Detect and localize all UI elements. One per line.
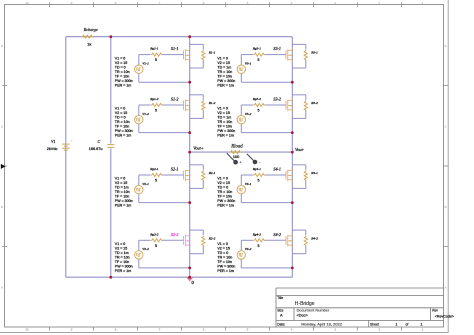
svg-text:2kVdc: 2kVdc [47, 147, 58, 151]
transistor S3-2 [285, 101, 287, 110]
node junction S3-1 source [291, 81, 294, 84]
svg-text:PER = 1m: PER = 1m [217, 204, 233, 208]
wire drain resistor loop R4-2 [292, 229, 306, 231]
transistor S2-1 [183, 171, 185, 180]
node junction S2-2 source [188, 267, 191, 270]
params V2-1 [115, 177, 133, 208]
svg-text:R2-1: R2-1 [208, 171, 216, 175]
svg-text:TD = 0: TD = 0 [115, 65, 126, 69]
svg-text:PER = 1m: PER = 1m [217, 134, 233, 138]
svg-text:Rg3-2: Rg3-2 [252, 97, 262, 101]
ground 0 [186, 278, 193, 282]
svg-text:PW = 300n: PW = 300n [217, 265, 235, 269]
wire drain resistor loop R2-2 [190, 229, 204, 231]
wire gate loop S1-1 [138, 55, 140, 65]
svg-text:S2-2: S2-2 [171, 232, 179, 237]
svg-text:<Doc>: <Doc> [297, 314, 309, 318]
pulse source V2-1 [135, 185, 143, 193]
node junction S4-1 source [291, 201, 294, 204]
svg-text:Rcharge: Rcharge [83, 27, 98, 32]
svg-text:PW = 300n: PW = 300n [115, 79, 133, 83]
svg-text:PW = 300n: PW = 300n [217, 199, 235, 203]
svg-text:C: C [1, 125, 3, 129]
svg-text:<RevCode>: <RevCode> [435, 314, 454, 318]
wire gate loop S2-2 [138, 240, 140, 250]
svg-text:PER = 1m: PER = 1m [217, 269, 233, 273]
wire drain resistor loop R3-1 [292, 43, 306, 45]
svg-text:TD = 1m: TD = 1m [217, 116, 231, 120]
wire V1 rail left [65, 37, 67, 278]
svg-text:PW = 300n: PW = 300n [217, 79, 235, 83]
svg-text:100: 100 [233, 155, 239, 159]
svg-text:5: 5 [258, 58, 260, 62]
svg-text:V2 = 15: V2 = 15 [217, 61, 230, 65]
resistor R2-1 [202, 170, 205, 181]
node junction top left leg [188, 35, 191, 38]
svg-text:PER = 1m: PER = 1m [115, 134, 131, 138]
svg-text:TD = 1m: TD = 1m [217, 65, 231, 69]
svg-text:D: D [1, 44, 3, 48]
pulse source V3-1 [237, 65, 245, 73]
svg-text:V1 = 0: V1 = 0 [217, 56, 228, 60]
svg-text:PER = 1m: PER = 1m [115, 204, 131, 208]
svg-text:TR = 10n: TR = 10n [115, 190, 130, 194]
resistor R4-1 [304, 170, 307, 181]
resistor R1-1 [202, 50, 205, 61]
svg-text:R4-1: R4-1 [310, 171, 318, 175]
svg-text:S3-1: S3-1 [273, 46, 281, 51]
svg-text:TF = 10n: TF = 10n [217, 74, 231, 78]
svg-text:TD = 0: TD = 0 [115, 116, 126, 120]
svg-text:TR = 10n: TR = 10n [217, 256, 232, 260]
wire gate loop S2-1 [138, 175, 140, 185]
svg-text:1k: 1k [87, 42, 91, 46]
wire bottom rail [66, 276, 292, 278]
svg-text:H-Bridge: H-Bridge [295, 301, 315, 307]
svg-text:V1 = 0: V1 = 0 [217, 177, 228, 181]
svg-text:Rg2-1: Rg2-1 [149, 167, 159, 171]
svg-text:V3-2: V3-2 [245, 112, 252, 116]
pulse source V2-2 [135, 251, 143, 259]
wire top rail [66, 36, 292, 38]
wire gate loop S4-1 [240, 175, 242, 185]
svg-text:B: B [445, 205, 447, 209]
svg-text:TF = 10n: TF = 10n [217, 195, 231, 199]
node junction S3-2 source [291, 131, 294, 134]
svg-text:Rg4-1: Rg4-1 [252, 167, 262, 171]
svg-text:V2 = 15: V2 = 15 [115, 61, 128, 65]
svg-text:-: - [259, 160, 260, 164]
svg-text:V1 = 0: V1 = 0 [115, 242, 126, 246]
resistor R2-2 [202, 236, 205, 247]
svg-text:TR = 10n: TR = 10n [115, 120, 130, 124]
svg-text:5: 5 [155, 58, 157, 62]
wire drain resistor loop R2-1 [190, 164, 204, 166]
svg-text:PW = 300n: PW = 300n [115, 199, 133, 203]
svg-text:TF = 10n: TF = 10n [115, 74, 129, 78]
svg-text:B: B [1, 205, 3, 209]
svg-text:of: of [406, 322, 409, 326]
title block frame [276, 288, 444, 327]
probe marker minus [247, 154, 254, 161]
node Vout- [291, 151, 294, 154]
resistor R3-1 [304, 50, 307, 61]
wire left leg rail [189, 37, 191, 278]
node junction S2-1 source [188, 201, 191, 204]
svg-text:R2-2: R2-2 [208, 236, 216, 240]
svg-text:S2-1: S2-1 [171, 167, 179, 172]
svg-text:1: 1 [421, 322, 423, 326]
pulse source V1-2 [135, 115, 143, 123]
svg-text:5: 5 [258, 109, 260, 113]
svg-text:A: A [280, 314, 283, 318]
svg-text:TR = 10n: TR = 10n [115, 256, 130, 260]
title block text [277, 296, 454, 327]
svg-text:R3-1: R3-1 [310, 51, 318, 55]
svg-text:C: C [445, 125, 447, 129]
resistor Rg4-1 [253, 173, 265, 176]
capacitor C [107, 145, 114, 148]
svg-text:10: 10 [25, 1, 29, 5]
svg-text:V3-1: V3-1 [245, 62, 252, 66]
svg-text:V2 = 15: V2 = 15 [115, 181, 128, 185]
transistor S4-2 [285, 236, 287, 245]
svg-text:1: 1 [396, 322, 398, 326]
svg-text:Rev: Rev [432, 309, 438, 313]
svg-text:TR = 10n: TR = 10n [217, 190, 232, 194]
wire drain resistor loop R1-2 [190, 94, 204, 96]
transistor S2-2 [183, 236, 185, 245]
svg-text:V1: V1 [51, 139, 55, 144]
svg-text:V2 = 15: V2 = 15 [217, 181, 230, 185]
svg-text:+: + [240, 160, 242, 164]
params V3-1 [217, 56, 235, 87]
wire drain resistor loop R1-1 [190, 43, 204, 45]
svg-text:TR = 10n: TR = 10n [115, 70, 130, 74]
svg-text:TF = 10n: TF = 10n [115, 125, 129, 129]
wire drain resistor loop R3-2 [292, 94, 306, 96]
resistor R1-2 [202, 100, 205, 111]
svg-text:Monday, April 18, 2022: Monday, April 18, 2022 [301, 322, 342, 327]
transistor S1-1 [183, 50, 185, 59]
svg-text:Rg3-1: Rg3-1 [252, 47, 262, 51]
svg-text:Sheet: Sheet [370, 322, 379, 326]
svg-text:S4-2: S4-2 [273, 232, 281, 237]
svg-text:Size: Size [277, 309, 283, 313]
svg-text:Rg2-2: Rg2-2 [149, 232, 159, 236]
svg-text:V2-1: V2-1 [142, 182, 149, 186]
svg-text:V1-2: V1-2 [142, 112, 149, 116]
svg-text:TF = 10n: TF = 10n [217, 125, 231, 129]
probe marker plus [227, 153, 235, 161]
wire gate loop S4-2 [240, 240, 242, 250]
svg-text:R1-1: R1-1 [208, 51, 216, 55]
svg-text:PW = 300n: PW = 300n [217, 129, 235, 133]
svg-text:PER = 1m: PER = 1m [217, 83, 233, 87]
wire gate loop S3-1 [240, 55, 242, 65]
svg-text:5: 5 [155, 179, 157, 183]
svg-text:5: 5 [155, 244, 157, 248]
svg-text:PER = 1m: PER = 1m [115, 269, 131, 273]
svg-text:Document Number: Document Number [297, 308, 330, 313]
pulse source V4-1 [237, 185, 245, 193]
svg-text:V1 = 0: V1 = 0 [115, 56, 126, 60]
transistor S4-1 [285, 171, 287, 180]
resistor Rg1-2 [151, 103, 163, 106]
svg-text:S4-1: S4-1 [273, 167, 281, 172]
resistor R4-2 [304, 236, 307, 247]
resistor Rg3-2 [253, 103, 265, 106]
svg-text:V1-1: V1-1 [142, 62, 149, 66]
svg-text:S1-1: S1-1 [171, 46, 179, 51]
svg-text:V4-2: V4-2 [245, 247, 252, 251]
svg-text:V2 = 15: V2 = 15 [115, 111, 128, 115]
svg-text:C: C [98, 139, 101, 144]
svg-text:Title: Title [277, 296, 283, 300]
params V2-2 [115, 242, 133, 273]
wire Vout load line [190, 151, 293, 153]
svg-text:R3-2: R3-2 [310, 101, 318, 105]
resistor R3-2 [304, 100, 307, 111]
resistor Rg2-2 [151, 239, 163, 242]
svg-text:5: 5 [155, 109, 157, 113]
svg-text:TD = 1m: TD = 1m [115, 186, 129, 190]
resistor Rcharge [81, 35, 93, 38]
svg-text:Rload: Rload [230, 144, 243, 149]
wire gate loop S3-2 [240, 105, 242, 115]
svg-text:Date:: Date: [277, 322, 285, 326]
node junction top cap [109, 35, 112, 38]
svg-text:TF = 10n: TF = 10n [217, 260, 231, 264]
resistor Rload [230, 151, 242, 154]
svg-text:Rg1-1: Rg1-1 [149, 47, 159, 51]
wire right leg rail [291, 37, 293, 278]
svg-text:V2 = 15: V2 = 15 [217, 111, 230, 115]
wire drain resistor loop R4-1 [292, 164, 306, 166]
transistor S3-1 [285, 50, 287, 59]
svg-text:10: 10 [25, 327, 29, 331]
resistor Rg3-1 [253, 53, 265, 56]
svg-text:V1 = 0: V1 = 0 [115, 107, 126, 111]
svg-text:V1 = 0: V1 = 0 [217, 242, 228, 246]
svg-text:Rg4-2: Rg4-2 [252, 232, 262, 236]
pulse source V4-2 [237, 251, 245, 259]
svg-text:V2-2: V2-2 [142, 247, 149, 251]
resistor Rg1-1 [151, 53, 163, 56]
svg-text:5: 5 [258, 179, 260, 183]
svg-text:V4-1: V4-1 [245, 182, 252, 186]
svg-text:PW = 300n: PW = 300n [115, 129, 133, 133]
params V4-1 [217, 177, 235, 208]
pulse source V1-1 [135, 65, 143, 73]
node junction S1-2 source [188, 131, 191, 134]
node junction S1-1 source [188, 81, 191, 84]
svg-text:R4-2: R4-2 [310, 236, 318, 240]
svg-text:TR = 10n: TR = 10n [217, 120, 232, 124]
svg-text:166.67u: 166.67u [89, 147, 103, 151]
voltage source V1 [62, 144, 70, 150]
transistor S1-2 [183, 101, 185, 110]
params V3-2 [217, 107, 235, 138]
params V1-2 [115, 107, 133, 138]
svg-text:Vout-: Vout- [295, 147, 305, 152]
resistor Rg4-2 [253, 239, 265, 242]
svg-text:R1-2: R1-2 [208, 101, 216, 105]
params V4-2 [217, 242, 235, 273]
svg-text:Vout+: Vout+ [193, 146, 204, 151]
wire gate loop S1-2 [138, 105, 140, 115]
svg-text:V1 = 0: V1 = 0 [217, 107, 228, 111]
svg-text:D: D [445, 44, 447, 48]
svg-text:S3-2: S3-2 [273, 97, 281, 102]
zone letters [1, 44, 447, 290]
svg-text:S1-2: S1-2 [171, 97, 179, 102]
svg-text:PER = 1m: PER = 1m [115, 83, 131, 87]
svg-text:V2 = 15: V2 = 15 [217, 247, 230, 251]
svg-text:5: 5 [258, 244, 260, 248]
svg-text:V1 = 0: V1 = 0 [115, 177, 126, 181]
wire capacitor rail [110, 37, 112, 144]
svg-text:V2 = 15: V2 = 15 [115, 247, 128, 251]
svg-text:A: A [1, 286, 3, 290]
svg-text:TF = 10n: TF = 10n [115, 195, 129, 199]
node Vout+ [188, 151, 191, 154]
svg-text:TF = 10n: TF = 10n [115, 260, 129, 264]
svg-text:TD = 0: TD = 0 [217, 251, 228, 255]
svg-text:A: A [445, 286, 447, 290]
svg-text:PW = 300n: PW = 300n [115, 265, 133, 269]
node junction bottom cap [109, 276, 112, 279]
svg-text:TD = 1m: TD = 1m [115, 251, 129, 255]
resistor Rg2-1 [151, 173, 163, 176]
svg-text:TD = 0: TD = 0 [217, 186, 228, 190]
svg-text:Rg1-2: Rg1-2 [149, 97, 159, 101]
params V1-1 [115, 56, 133, 87]
cursor arrow marker on left border [1, 164, 6, 169]
node junction S4-2 source [291, 267, 294, 270]
pulse source V3-2 [237, 115, 245, 123]
svg-text:TR = 10n: TR = 10n [217, 70, 232, 74]
